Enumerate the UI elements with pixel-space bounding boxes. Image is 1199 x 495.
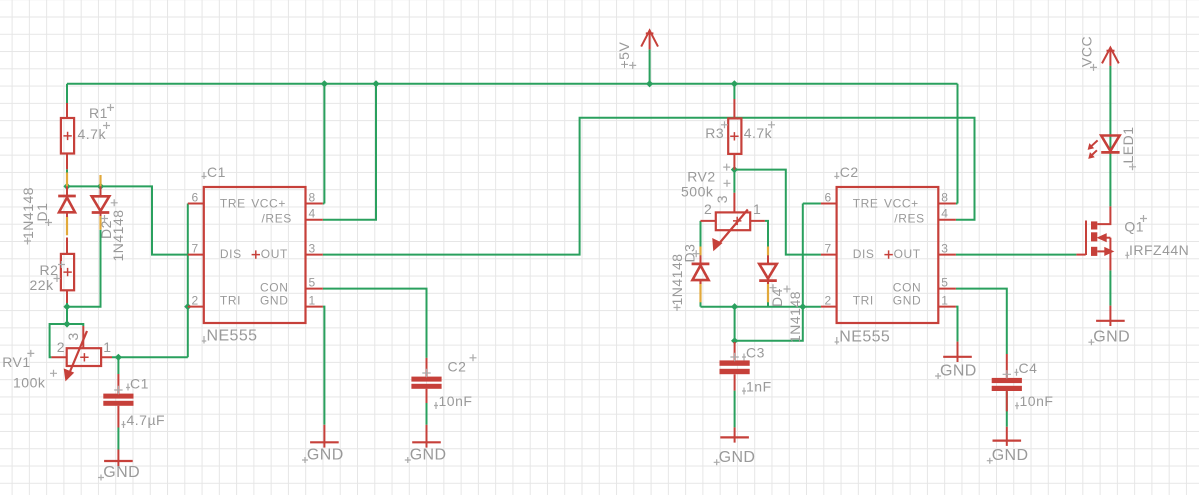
wire diode rail to IC1 DIS — [67, 186, 188, 254]
overlap D2 bottom pin — [99, 216, 101, 230]
wire IC2 CON to C4 — [956, 289, 1007, 354]
junction C3 top — [731, 337, 738, 344]
svg-text:4: 4 — [309, 207, 316, 221]
svg-text:DIS: DIS — [853, 247, 875, 261]
wire RV1 pin1 to IC1 TRI — [112, 356, 188, 358]
svg-text:1N4148: 1N4148 — [20, 187, 36, 239]
diode D2 1N4148 — [92, 186, 126, 261]
junction RV1 top — [63, 320, 70, 327]
junction top rail / IC1 pin8 — [321, 80, 328, 87]
wire C2 bottom to GND — [426, 403, 428, 425]
pin 8 stub IC1 — [306, 203, 323, 205]
svg-text:1N4148: 1N4148 — [669, 253, 685, 305]
wire IC1 OUT to IC2 /RES — [323, 118, 975, 255]
pin 6 stub IC1 — [188, 203, 204, 205]
resistor R2 — [30, 238, 75, 304]
Q1 gate lead — [1076, 254, 1085, 256]
svg-text:7: 7 — [825, 242, 832, 256]
overlap D1 bottom pin — [66, 217, 68, 236]
junction top rail / R3 — [731, 80, 738, 87]
svg-text:GND: GND — [893, 293, 921, 307]
svg-text:GND: GND — [103, 464, 140, 481]
junction RV1 pin1 / C1 — [115, 354, 122, 361]
wire R3 bottom to IC2 DIS — [734, 170, 821, 255]
wire C1 bottom to GND — [117, 428, 119, 450]
svg-text:1nF: 1nF — [746, 379, 772, 395]
wire C4 bottom to GND — [1006, 391, 1008, 426]
svg-text:10nF: 10nF — [439, 393, 473, 409]
overlap D3 top pin — [699, 247, 701, 256]
ground GND (IC1 pin1) — [302, 425, 344, 464]
wire VCC top rail — [67, 83, 958, 85]
svg-text:5: 5 — [309, 276, 316, 290]
potentiometer RV2 — [681, 164, 765, 250]
junction diode bottom rail / IC2 pin6 — [799, 303, 806, 310]
svg-text:IRFZ44N: IRFZ44N — [1129, 242, 1189, 258]
wire Q1 source to GND — [1109, 270, 1111, 305]
svg-text:+5V: +5V — [616, 42, 632, 69]
svg-text:C2: C2 — [448, 359, 467, 375]
svg-text:1N4148: 1N4148 — [787, 291, 803, 343]
svg-text:Q1: Q1 — [1124, 219, 1144, 235]
svg-text:C2: C2 — [840, 164, 859, 180]
svg-text:1: 1 — [753, 201, 761, 217]
ground GND (C3) — [714, 427, 756, 465]
ground GND (IC2 pin1) — [935, 342, 977, 380]
diode D1 1N4148 — [20, 186, 76, 244]
svg-text:C4: C4 — [1019, 360, 1038, 376]
overlap D1 top pin — [66, 173, 68, 187]
svg-text:8: 8 — [309, 191, 316, 205]
wire C3 branch — [735, 307, 803, 341]
wire R1 bottom to diode rail — [66, 169, 68, 186]
capacitor C2 10nF — [411, 354, 476, 409]
wire IC2 OUT to Q1 gate — [956, 254, 1077, 256]
svg-text:OUT: OUT — [894, 247, 921, 261]
overlap D2 top pin — [99, 175, 101, 186]
junction IC1 TRI — [184, 303, 191, 310]
svg-text:6: 6 — [192, 191, 199, 205]
pin overlap highlights (yellow) — [67, 173, 768, 303]
wire IC2 pin6 vertical — [803, 204, 821, 307]
svg-text:GND: GND — [260, 293, 288, 307]
wire D4 bottom — [767, 282, 769, 307]
svg-text:100k: 100k — [13, 374, 46, 390]
svg-text:C1: C1 — [207, 164, 226, 180]
pin 2 stub IC2 — [821, 306, 837, 308]
wire junction to RV1 pin3 — [67, 324, 83, 326]
wire IC2 pin1 to GND — [956, 307, 958, 342]
wire C1 top — [117, 357, 119, 374]
Q1 drain lead — [1097, 206, 1110, 224]
svg-text:VCC+: VCC+ — [251, 197, 286, 211]
svg-text:1: 1 — [941, 294, 948, 308]
wire IC1 pin8 to top rail — [323, 84, 325, 204]
junction top rail / IC1 pin4 — [372, 80, 379, 87]
svg-text:DIS: DIS — [220, 247, 242, 261]
pin 4 stub IC1 — [306, 219, 323, 221]
overlap D4 top pin — [767, 247, 769, 256]
resistor R1 — [61, 103, 114, 169]
resistor R3 — [705, 99, 775, 170]
wire RV2 pin1 to D4 — [765, 221, 768, 256]
wire R1 top — [66, 84, 68, 103]
ground GND (C4) — [987, 427, 1029, 464]
svg-text:NE555: NE555 — [207, 328, 258, 345]
LED LED1 — [1088, 126, 1136, 170]
svg-text:TRE: TRE — [220, 197, 246, 211]
svg-text:7: 7 — [192, 242, 199, 256]
junction diode rail / D1 — [63, 183, 70, 190]
svg-text:OUT: OUT — [261, 247, 288, 261]
svg-text:4.7µF: 4.7µF — [127, 412, 166, 428]
junction top rail / +5V — [646, 80, 653, 87]
capacitor C1 4.7uF — [103, 374, 165, 428]
pin 1 stub IC2 — [938, 306, 956, 308]
svg-text:C1: C1 — [130, 375, 149, 391]
svg-text:GND: GND — [307, 447, 344, 464]
potentiometer RV1 — [2, 326, 112, 390]
svg-text:D4: D4 — [769, 288, 785, 307]
capacitor C4 10nF — [992, 354, 1054, 411]
svg-text:1N4148: 1N4148 — [110, 209, 126, 261]
pin 2 stub IC1 — [188, 306, 204, 308]
origin cross IC1 (red +) — [252, 250, 260, 258]
svg-text:2: 2 — [57, 339, 65, 355]
ground GND (C2) — [405, 425, 447, 464]
svg-text:CON: CON — [260, 281, 288, 295]
svg-text:500k: 500k — [681, 184, 714, 200]
pin 1 stub IC1 — [306, 306, 323, 308]
diode D4 1N4148 — [759, 255, 803, 343]
svg-text:2: 2 — [192, 294, 199, 308]
svg-text:/RES: /RES — [262, 212, 292, 226]
wire IC1 pin4 to top rail — [323, 84, 376, 220]
svg-text:GND: GND — [940, 363, 977, 380]
svg-text:5: 5 — [941, 276, 948, 290]
svg-text:R2: R2 — [40, 262, 59, 278]
LED1 emission arrows — [1091, 140, 1097, 146]
svg-text:GND: GND — [410, 447, 447, 464]
pin 8 stub IC2 — [938, 203, 956, 205]
Q1 channel dashes — [1091, 221, 1097, 229]
wire D2 bottom to R2 bottom — [67, 230, 101, 307]
junction diode bottom rail / C3 — [731, 303, 738, 310]
wire diode bottom rail to IC2 TRI — [701, 306, 821, 308]
transistor Q1 IRFZ44N — [1076, 206, 1189, 270]
svg-text:C3: C3 — [746, 345, 765, 361]
capacitor C3 1nF — [720, 342, 772, 395]
wire R3 top — [733, 84, 735, 99]
pin 6 stub IC2 — [821, 203, 837, 205]
wire IC1 CON to C2 — [323, 289, 427, 358]
svg-text:6: 6 — [825, 191, 832, 205]
svg-text:TRI: TRI — [220, 293, 241, 307]
supply +5V — [616, 30, 658, 69]
supply VCC — [1079, 36, 1119, 71]
Q1 source lead — [1097, 250, 1105, 252]
svg-text:CON: CON — [893, 281, 921, 295]
svg-text:GND: GND — [1093, 329, 1130, 346]
pin 5 stub IC2 — [938, 288, 956, 290]
wire R2 bottom junction — [66, 303, 68, 324]
svg-text:GND: GND — [992, 447, 1029, 464]
overlap D3 bottom pin — [699, 281, 701, 302]
Q1 gate bar — [1085, 221, 1087, 256]
wire RV2 pin2 to D3 — [700, 221, 702, 256]
wire junction to RV1 pin2 — [50, 324, 67, 357]
wire IC1 pin1 to GND — [323, 307, 325, 425]
svg-text:8: 8 — [941, 191, 948, 205]
svg-text:22k: 22k — [30, 277, 55, 293]
wire +5V stem — [649, 49, 651, 83]
svg-text:3: 3 — [941, 242, 948, 256]
ground GND (C1) — [98, 450, 140, 482]
svg-text:LED1: LED1 — [1120, 126, 1136, 163]
svg-text:NE555: NE555 — [839, 329, 890, 346]
wire IC2 pin8 to top rail — [956, 84, 958, 204]
junction R3 bottom — [731, 166, 738, 173]
svg-text:1: 1 — [103, 339, 111, 355]
pin 7 stub IC2 — [821, 254, 837, 256]
Q1 body arrow — [1104, 237, 1110, 239]
op-amp U1 : IC1 NE555 box — [188, 164, 323, 345]
svg-text:1: 1 — [309, 294, 316, 308]
origin cross IC2 (red +) — [884, 250, 892, 258]
svg-text:4: 4 — [941, 207, 948, 221]
svg-text:D1: D1 — [34, 203, 50, 222]
pin 5 stub IC1 — [306, 288, 323, 290]
wire D3 bottom — [700, 281, 702, 307]
svg-text:VCC: VCC — [1079, 36, 1095, 67]
svg-text:3: 3 — [65, 332, 81, 340]
wire R3 bottom to RV2 pin3 — [733, 170, 735, 193]
svg-text:TRE: TRE — [853, 197, 879, 211]
svg-text:GND: GND — [719, 449, 756, 466]
wire IC1 pin6-pin2 vertical — [187, 204, 189, 358]
wire VCC to LED to Q1 drain — [1109, 66, 1111, 207]
svg-text:10nF: 10nF — [1020, 393, 1054, 409]
pin 7 stub IC1 — [188, 254, 204, 256]
svg-text:4.7k: 4.7k — [78, 126, 107, 142]
svg-text:R3: R3 — [705, 125, 724, 141]
svg-text:3: 3 — [309, 242, 316, 256]
ground GND (Q1 source) — [1088, 306, 1130, 346]
overlap D4 bottom pin — [767, 282, 769, 303]
junction R2 bottom — [63, 303, 70, 310]
svg-text:2: 2 — [825, 294, 832, 308]
svg-text:4.7k: 4.7k — [744, 125, 773, 141]
wire C3 bottom to GND — [734, 391, 736, 428]
svg-text:/RES: /RES — [894, 212, 924, 226]
svg-text:RV1: RV1 — [2, 354, 30, 370]
pin 3 stub IC1 — [306, 254, 323, 256]
pin 4 stub IC2 — [938, 219, 956, 221]
svg-text:2: 2 — [704, 201, 712, 217]
pin 3 stub IC2 — [938, 254, 956, 256]
svg-text:VCC+: VCC+ — [884, 197, 919, 211]
svg-text:R1: R1 — [89, 105, 108, 121]
diode D3 1N4148 — [669, 244, 710, 311]
svg-text:3: 3 — [714, 195, 730, 203]
svg-text:RV2: RV2 — [687, 168, 715, 184]
svg-text:TRI: TRI — [853, 293, 874, 307]
junction diode rail / D2 — [97, 183, 104, 190]
op-amp U2 : IC2 NE555 box — [821, 164, 956, 346]
